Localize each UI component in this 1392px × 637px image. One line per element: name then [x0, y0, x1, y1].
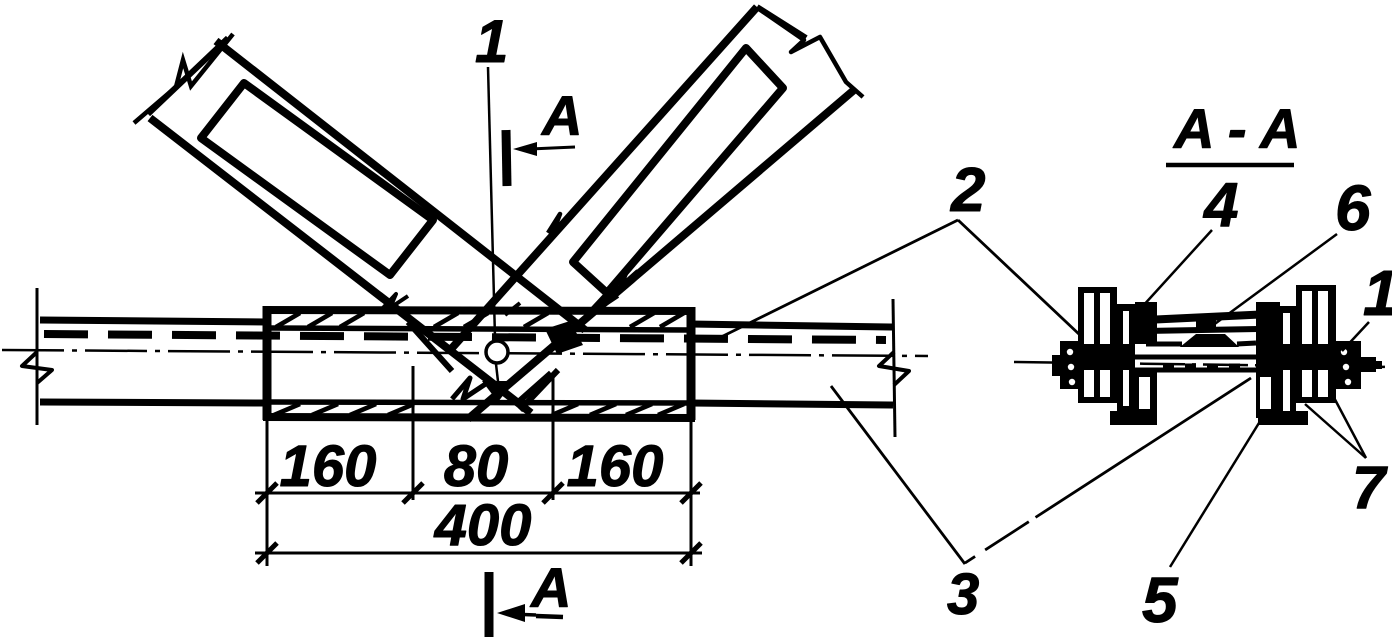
- section: right washer plate: [1277, 306, 1296, 418]
- weld marks at V bottom: [452, 378, 490, 399]
- left brace upper edge A: [216, 41, 585, 330]
- section: left channel bottom foot: [1110, 411, 1157, 425]
- chord top line in gusset: [270, 328, 688, 330]
- chord bottom line right segment: [690, 403, 893, 405]
- chord break line left: [36, 288, 39, 425]
- chord top line right segment: [690, 324, 893, 327]
- section: left washer plate: [1117, 304, 1135, 412]
- svg-text:400: 400: [434, 493, 532, 558]
- section mark bottom: arrow: [510, 614, 536, 615]
- leader 2a: [713, 220, 958, 341]
- section mark bottom: bar: [485, 572, 494, 637]
- section: bolt shaft lines: [1135, 355, 1280, 360]
- junction blob V vertex: [482, 381, 514, 402]
- section: left channel web column: [1135, 302, 1157, 344]
- gusset plate box: [263, 310, 695, 311]
- right brace end cut in gusset: [408, 322, 452, 371]
- weld zigzag at box top left: [382, 294, 408, 309]
- chord centerline (main view): [2, 350, 928, 356]
- section: web joggle plateau: [1146, 342, 1182, 347]
- chord bottom line left segment: [40, 402, 267, 403]
- section: right plate stack: [1296, 285, 1336, 403]
- junction blob right X: [545, 321, 583, 354]
- section: left plate stack: [1078, 287, 1117, 403]
- svg-text:A: A: [540, 84, 582, 147]
- right brace upper edge C: [452, 7, 757, 348]
- section: right channel bottom foot: [1258, 411, 1308, 425]
- leader 6: [1212, 234, 1337, 326]
- section: top flange band lower line: [1145, 329, 1258, 331]
- svg-text:A - A: A - A: [1172, 97, 1301, 160]
- svg-text:4: 4: [1202, 171, 1238, 240]
- weld tick center: [505, 303, 520, 315]
- dimension line 160/80/160: [255, 492, 700, 495]
- left brace lower edge B: [150, 118, 531, 413]
- svg-text:1: 1: [1363, 257, 1392, 329]
- weld zigzag on edge C: [548, 214, 570, 233]
- section: right channel web column: [1256, 302, 1280, 344]
- weld zigzag at box top right: [592, 294, 618, 309]
- left brace slot: [201, 83, 433, 275]
- section: thread dashes: [1163, 364, 1240, 369]
- leader 3a: [831, 386, 965, 564]
- svg-text:2: 2: [950, 156, 985, 225]
- node circle: [486, 341, 508, 363]
- section: left bolt head: [1060, 341, 1081, 389]
- chord top line left segment: [40, 320, 267, 322]
- right brace lower edge D: [468, 90, 854, 419]
- left brace end cut in gusset: [520, 370, 558, 410]
- svg-text:6: 6: [1335, 172, 1371, 244]
- right brace slot: [573, 48, 783, 293]
- dimension extension lines: [266, 420, 269, 566]
- svg-text:5: 5: [1142, 564, 1179, 636]
- section: bolt tip: [1361, 357, 1376, 372]
- svg-text:160: 160: [280, 434, 377, 499]
- left brace break line with zigzag: [134, 34, 233, 123]
- gusset hatch top: [276, 313, 684, 327]
- section mark top: arrow: [530, 147, 575, 149]
- svg-text:1: 1: [475, 8, 508, 75]
- svg-text:160: 160: [567, 434, 664, 499]
- svg-text:7: 7: [1352, 454, 1388, 521]
- leader 4: [1142, 230, 1212, 307]
- underline dash below A bottom: [536, 616, 563, 617]
- leader 3b: [965, 378, 1251, 563]
- svg-text:A: A: [529, 556, 571, 619]
- section: top flange band upper line: [1145, 313, 1292, 320]
- leader 2b: [958, 220, 1081, 336]
- section title underline: [1166, 163, 1294, 168]
- section A-A centerline: [1014, 362, 1390, 367]
- dimension line 400: [255, 552, 702, 555]
- chord hidden dashed line: [44, 334, 886, 340]
- svg-text:80: 80: [444, 434, 509, 499]
- node axis line: [488, 67, 495, 338]
- left brace end edge: [148, 38, 228, 114]
- svg-text:3: 3: [947, 562, 979, 627]
- dimension tick slashes: [257, 483, 701, 563]
- section: right nut: [1336, 341, 1361, 389]
- leader 7a: [1305, 404, 1366, 458]
- chord bottom line in gusset: [270, 402, 688, 403]
- section mark top: bar: [506, 130, 507, 186]
- leader 5: [1170, 410, 1267, 567]
- chord break line right: [893, 299, 895, 437]
- right brace end edge: [757, 7, 806, 38]
- leader 7b: [1331, 392, 1366, 458]
- gusset hatch bottom: [274, 404, 684, 415]
- leader 1 right: [1342, 322, 1369, 351]
- right brace break line with zigzag: [762, 11, 863, 97]
- weld zigzag at right slot end: [612, 268, 638, 286]
